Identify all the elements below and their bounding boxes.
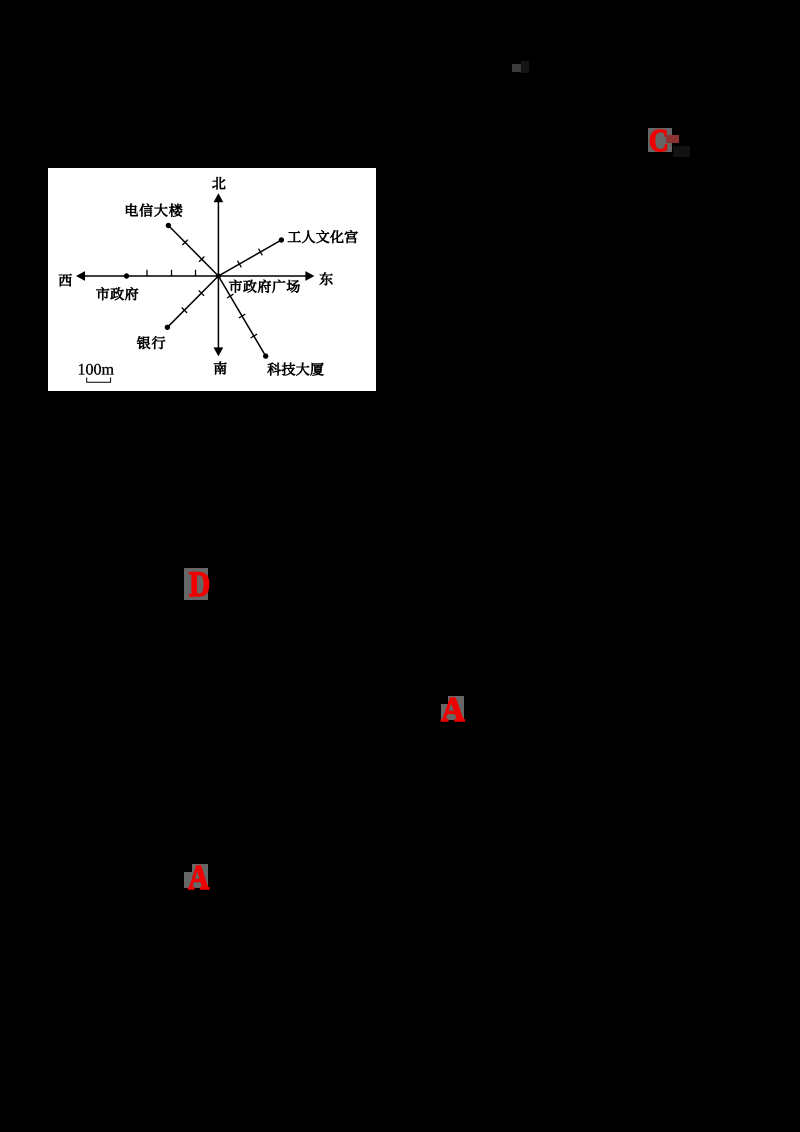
answer A2 highlight box [192,864,208,888]
answer letter D [189,570,210,599]
north arrowhead [214,193,224,202]
SW branch to bank endpoint dot [165,325,170,330]
answer letter C [649,126,669,154]
SE branch to science building ticks [227,294,234,298]
SW branch to bank ticks [199,290,204,295]
NW branch to telecom building ticks [199,257,204,262]
NW branch to telecom building line [168,226,218,277]
label science building 科技大厦 [268,363,324,376]
faint dark glyph next to gray square [521,61,529,73]
label west 西 [59,274,72,286]
answer C highlight box [648,128,672,152]
label bank 银行 [137,336,165,349]
label east 东 [320,272,333,285]
label south 南 [214,362,227,375]
SE branch to science building endpoint dot [263,353,268,358]
label city hall square 市政府广场 [229,280,300,293]
south arrowhead [214,347,224,356]
label workers cultural palace 工人文化宫 [288,230,358,243]
label telecom building 电信大楼 [126,204,182,217]
answer D highlight box [184,568,208,600]
answer letter A2 [188,863,209,893]
NW branch to telecom building endpoint dot [166,223,171,228]
SW branch to bank line [167,276,218,327]
label city hall 市政府 [96,287,138,300]
dark red dash after C [666,135,679,143]
NE branch to workers cultural palace line [218,240,281,276]
scale label 100m [79,364,114,375]
NE branch to workers cultural palace endpoint dot [279,237,284,242]
north-south axis line [217,200,219,349]
west arrowhead [76,271,85,281]
label north 北 [212,177,225,189]
center dot (city hall square) [216,273,221,278]
city hall dot on west axis [124,273,129,278]
NE branch to workers cultural palace ticks [238,261,242,268]
faint gray square mark near top [512,64,521,72]
answer A2 highlight box small [184,872,192,888]
SE branch to science building line [218,276,265,356]
west-east axis line [83,275,307,277]
answer letter A1 [441,695,465,725]
ticks on west axis [146,270,148,277]
answer A1 highlight box [448,696,465,720]
figure: direction map image panel [48,168,376,391]
answer A1 highlight box small [441,704,448,720]
scale bracket [87,378,111,383]
east arrowhead [305,271,314,281]
faint dark mark below right of C [673,146,690,157]
